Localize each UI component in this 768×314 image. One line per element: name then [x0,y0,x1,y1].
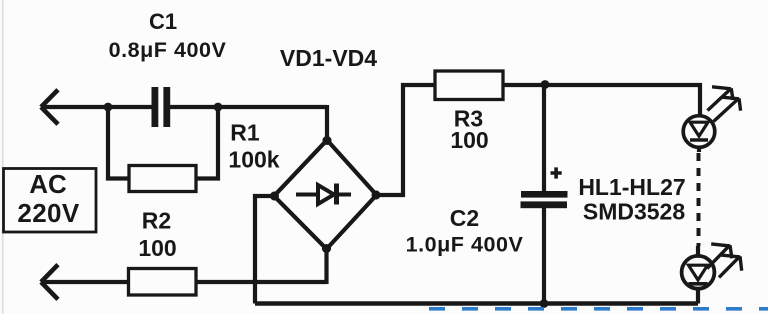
svg-text:R2: R2 [142,208,171,234]
svg-text:C1: C1 [149,9,177,34]
svg-text:VD1-VD4: VD1-VD4 [280,45,377,71]
svg-text:0.8μF 400V: 0.8μF 400V [109,38,227,62]
svg-text:SMD3528: SMD3528 [583,199,685,225]
svg-text:100: 100 [450,127,488,153]
svg-text:100: 100 [138,235,176,261]
svg-text:HL1-HL27: HL1-HL27 [578,174,685,200]
svg-text:C2: C2 [450,205,479,231]
svg-text:220V: 220V [17,198,80,228]
svg-text:AC: AC [29,169,67,199]
svg-text:R1: R1 [230,120,260,146]
svg-text:100k: 100k [228,147,279,173]
svg-text:1.0μF 400V: 1.0μF 400V [406,233,524,257]
